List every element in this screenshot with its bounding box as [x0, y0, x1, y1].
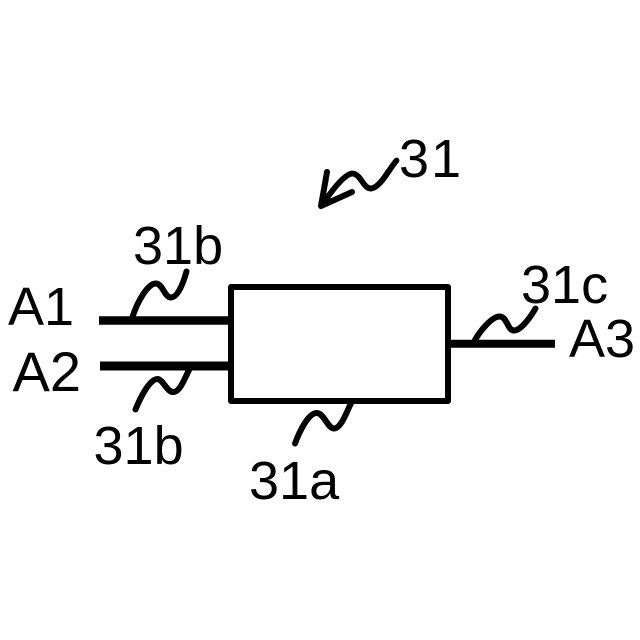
leader squiggle to 31b (lower, on A2 line) — [136, 370, 190, 410]
leader squiggle to 31c (on A3 line) — [475, 309, 536, 341]
arrow leader for 31 (squiggly shaft) — [322, 161, 397, 206]
label 31b lower — [94, 419, 184, 473]
leader squiggle to 31a (on box bottom) — [295, 403, 351, 444]
label 31b upper — [133, 219, 223, 273]
leader squiggle to 31b (upper, on A1 line) — [132, 272, 187, 319]
label 31a — [249, 454, 339, 508]
wire A3 output line — [448, 340, 555, 348]
label A3 — [569, 312, 635, 366]
label A2 — [13, 344, 82, 400]
label A1 — [8, 280, 74, 334]
box 31a (body block) — [231, 287, 448, 401]
label 31c — [521, 258, 608, 312]
label 31 — [399, 132, 463, 186]
arrowhead of 31 leader — [321, 172, 352, 206]
wire A1 input line — [99, 316, 231, 325]
wire A2 input line — [100, 362, 231, 371]
